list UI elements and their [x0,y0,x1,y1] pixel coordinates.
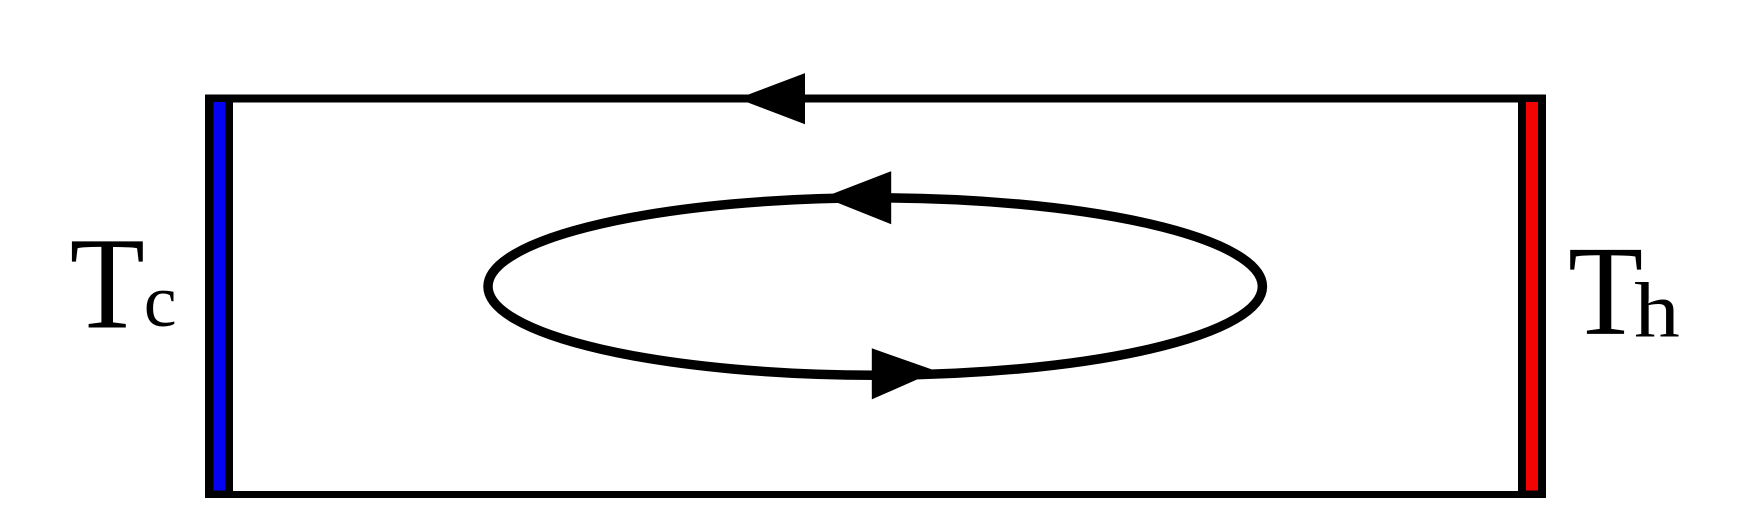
svg-text:h: h [1634,267,1680,353]
label Th [1568,221,1643,363]
bottom wall [205,491,1546,498]
cold wall frame [205,95,233,499]
hot wall frame [1518,95,1546,499]
svg-text:T: T [1568,221,1643,363]
loop top arrow [824,171,892,224]
hot wall red bar [1526,102,1538,491]
svg-text:T: T [70,211,145,357]
label Tc [70,211,145,357]
cold wall blue bar [214,102,226,491]
top wall [205,95,1546,103]
loop bottom arrow [872,348,937,399]
top flow arrow [738,73,805,124]
svg-text:c: c [144,261,177,343]
convection loop ellipse [488,198,1262,375]
